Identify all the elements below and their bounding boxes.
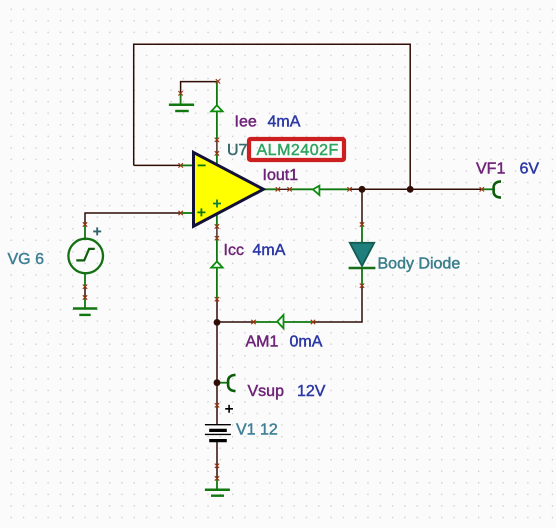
battery V1 — [205, 405, 233, 441]
current arrow Iee (up) — [211, 105, 222, 111]
op-amp minus sign — [198, 164, 206, 166]
current arrow AM1 (left) — [277, 315, 283, 328]
current arrow Icc (up) — [211, 261, 222, 267]
wire op-amp output green — [263, 188, 350, 190]
wire battery minus to ground — [216, 442, 218, 480]
wire Icc pin gap — [216, 226, 218, 238]
svg-text:Iee: Iee — [235, 114, 257, 131]
svg-text:U7: U7 — [227, 142, 248, 159]
svg-text:12V: 12V — [297, 383, 326, 400]
voltage generator VG — [68, 227, 103, 273]
svg-text:Body Diode: Body Diode — [378, 256, 461, 273]
svg-text:4mA: 4mA — [268, 114, 301, 131]
wire VG minus to ground — [84, 287, 86, 298]
svg-text:0mA: 0mA — [290, 334, 323, 351]
svg-text:4mA: 4mA — [253, 242, 286, 259]
wire Iee pin gap — [216, 140, 218, 154]
svg-text:AM1: AM1 — [246, 334, 279, 351]
svg-text:6V: 6V — [520, 161, 540, 178]
wire AM1 segment green — [254, 321, 314, 323]
wire pin diode cathode green — [361, 268, 363, 286]
ground top (op-amp V-) — [169, 105, 194, 111]
svg-text:VG 6: VG 6 — [8, 251, 45, 268]
wire VG ground stub green — [84, 298, 86, 309]
diode D1 body diode — [349, 243, 376, 268]
op-amp supply plus sign — [213, 200, 221, 208]
wire Icc node down to battery — [216, 299, 218, 424]
wire VG plus to noninverting input — [85, 213, 181, 225]
wire Icc segment green — [216, 214, 218, 300]
wire output node to VF1 — [350, 188, 482, 190]
ground VG — [73, 309, 97, 315]
wire VF1 stub green — [482, 188, 494, 190]
svg-text:ALM2402F: ALM2402F — [257, 142, 339, 159]
wire ground stub to Iee net — [181, 82, 217, 94]
wire pin VG top green — [84, 225, 86, 239]
wire top ground stub green — [180, 93, 182, 104]
probe VF1 hook — [494, 181, 501, 197]
wire pin VG bottom green — [84, 274, 86, 287]
wire output pin gap — [278, 188, 290, 190]
ground bottom (V1) — [205, 490, 230, 496]
pin cross marks red — [83, 79, 484, 481]
junction node Vsup — [214, 379, 221, 386]
wire bottom ground stub green — [216, 478, 218, 489]
op-amp plus sign — [197, 208, 205, 216]
probe Vsup hook — [228, 375, 235, 391]
wire pin diode anode green — [361, 225, 363, 245]
wire pin inverting input green — [181, 164, 194, 166]
op-amp U7 triangle — [194, 152, 264, 226]
wire pin noninverting input green — [181, 212, 194, 214]
wire AM1 to Vcc node — [217, 321, 254, 323]
part number box ALM2402F — [249, 139, 344, 160]
junction node output-diode — [359, 186, 366, 193]
svg-text:Vsup: Vsup — [248, 383, 285, 400]
junction node output-feedback — [407, 186, 414, 193]
wire inverting input — [134, 164, 181, 166]
svg-text:V1 12: V1 12 — [236, 422, 278, 439]
wire feedback loop top — [134, 44, 411, 186]
wire pin Iee vertical green — [216, 82, 218, 165]
wire Vsup stub green — [217, 382, 229, 384]
current arrow Iout1 (left) — [313, 186, 320, 195]
wire diode cathode to AM1 — [313, 286, 362, 322]
svg-text:VF1: VF1 — [476, 161, 505, 178]
svg-text:Iout1: Iout1 — [263, 167, 299, 184]
svg-text:Icc: Icc — [224, 242, 244, 259]
junction node Vcc-AM1 — [214, 319, 221, 326]
wire output node down to diode — [361, 189, 363, 224]
